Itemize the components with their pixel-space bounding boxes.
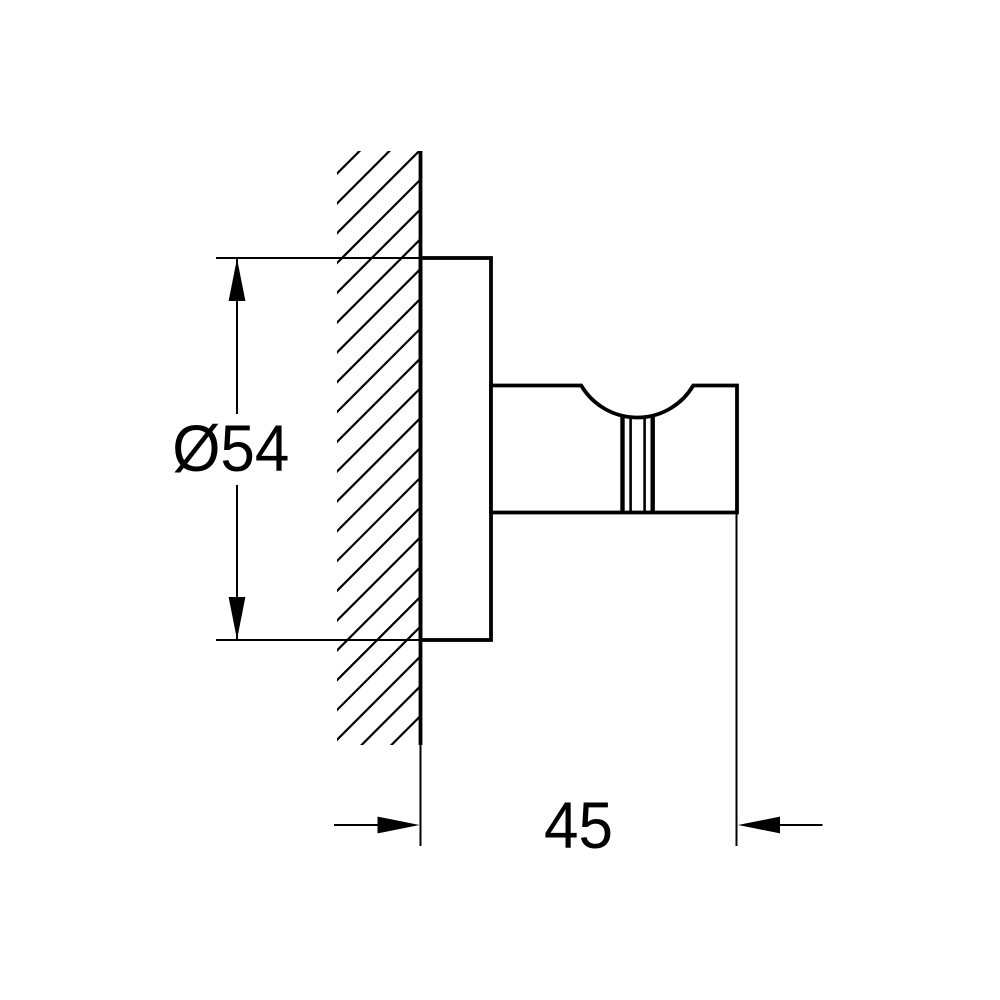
svg-text:45: 45 — [544, 788, 613, 862]
svg-text:Ø54: Ø54 — [172, 411, 289, 485]
